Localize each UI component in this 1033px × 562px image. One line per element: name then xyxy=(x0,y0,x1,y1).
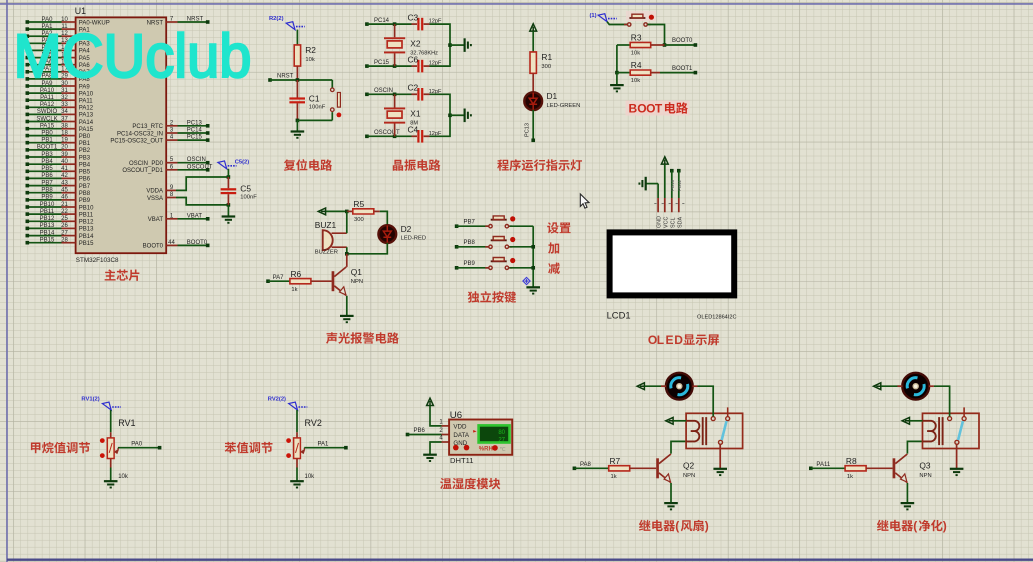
node PA11 terminal xyxy=(809,467,813,471)
wire net PB6 to U1 xyxy=(27,177,61,179)
node PB6 terminal xyxy=(406,433,410,437)
wire net PA9 to U1 xyxy=(27,85,61,87)
wire PA11 to R8 xyxy=(811,467,845,469)
svg-text:1k: 1k xyxy=(611,474,617,480)
node PA15 terminal xyxy=(26,127,30,131)
svg-text:R8: R8 xyxy=(846,456,857,466)
svg-text:12pF: 12pF xyxy=(429,131,442,137)
svg-text:PB13: PB13 xyxy=(40,223,55,229)
transistor Q2 NPN xyxy=(656,454,671,483)
label 晶振电路 (crystal circuit) xyxy=(393,159,441,171)
label 温湿度模块 (temperature-humidity module) xyxy=(440,478,500,490)
svg-text:SCL: SCL xyxy=(670,218,676,229)
svg-text:L: L xyxy=(657,333,664,347)
svg-text:OSCIN: OSCIN xyxy=(374,88,393,94)
wire net PA8 to U1 xyxy=(27,78,61,80)
node PB11 terminal xyxy=(26,212,30,216)
svg-text:SDA: SDA xyxy=(677,217,683,228)
wire VDDA to C5 top xyxy=(176,177,228,190)
power arrow VCC OLED xyxy=(661,157,668,164)
push button BOOT xyxy=(624,14,654,26)
svg-text:BOOT1: BOOT1 xyxy=(672,66,693,72)
wire NRST to C1 xyxy=(296,80,298,98)
relay RL1 fan xyxy=(686,407,743,448)
wire R5 to D2 xyxy=(380,211,388,225)
node NRST terminal xyxy=(268,78,272,82)
wire to ground xyxy=(616,73,618,85)
wire key PB8 to common rail xyxy=(510,246,534,248)
capacitor C3 12pF xyxy=(417,18,423,31)
wire flag to RV1 xyxy=(110,410,112,432)
ground RV1 xyxy=(104,481,118,487)
blue selection diamond xyxy=(523,277,530,284)
junction collector node xyxy=(345,252,349,256)
blue probe flag RV1(2) xyxy=(102,402,121,410)
junction C1 bottom xyxy=(296,119,300,123)
wire bottom rail to button xyxy=(297,119,332,121)
transistor Q3 NPN xyxy=(893,454,908,483)
svg-text:PB0: PB0 xyxy=(79,134,91,140)
node PA0 terminal xyxy=(158,446,162,450)
node PA1 terminal xyxy=(344,446,348,450)
svg-text:300: 300 xyxy=(541,64,551,70)
svg-text:PB15: PB15 xyxy=(40,238,55,244)
svg-text:PB13: PB13 xyxy=(79,227,94,233)
ground RV2 xyxy=(290,481,304,487)
wire to ground xyxy=(450,114,464,116)
svg-text:VDDA: VDDA xyxy=(146,189,163,195)
svg-text:PB10: PB10 xyxy=(40,202,55,208)
svg-text:32.768KHz: 32.768KHz xyxy=(410,50,438,56)
wire C2 to C2 rail xyxy=(430,94,451,136)
wire PC14 to C3 xyxy=(395,23,412,25)
node OSCOUT terminal xyxy=(206,168,210,172)
wire net PA2 to U1 xyxy=(27,35,61,37)
ground reset circuit xyxy=(291,132,305,138)
power arrow VCC alarm xyxy=(318,208,325,215)
wire net PB4 to U1 xyxy=(27,163,61,165)
wire C5 top stub xyxy=(227,177,229,188)
wire net PA5 to U1 xyxy=(27,57,61,59)
svg-text:PA15: PA15 xyxy=(40,124,55,130)
wire net PA12 to U1 xyxy=(27,106,61,108)
svg-text:X2: X2 xyxy=(410,39,421,49)
svg-text:10k: 10k xyxy=(118,474,129,480)
wire OSCIN to C2 xyxy=(395,93,412,95)
motor purifier M2 xyxy=(902,373,929,400)
wire R3-R4 left rail xyxy=(616,45,618,73)
svg-text:27: 27 xyxy=(498,437,505,443)
wire PC14 xyxy=(367,23,395,25)
svg-text:PC15-OSC32_OUT: PC15-OSC32_OUT xyxy=(110,138,163,144)
label 减 (decrease) xyxy=(548,263,560,274)
wire net VBAT from U1 xyxy=(178,218,208,220)
svg-text:NRST: NRST xyxy=(277,74,294,80)
DHT11 indicator dots xyxy=(453,445,507,453)
svg-text:26: 26 xyxy=(61,223,68,229)
wire net PA11 to U1 xyxy=(27,99,61,101)
wire key PB9 to common rail xyxy=(510,267,534,269)
wire VCC to U6 VDD xyxy=(430,406,442,426)
wire net PB15 to U1 xyxy=(27,242,61,244)
ground BOOT circuit xyxy=(610,85,624,91)
wire net PB5 to U1 xyxy=(27,170,61,172)
wire PA8 to R7 xyxy=(574,467,608,469)
node PA8 terminal xyxy=(573,467,577,471)
svg-text:43: 43 xyxy=(61,180,68,186)
wire R2 to NRST node xyxy=(296,66,298,80)
wire crystal X1 bottom xyxy=(394,124,396,137)
svg-text:PA11: PA11 xyxy=(816,462,830,468)
svg-text:PB1: PB1 xyxy=(41,138,53,144)
wire net PC15 from U1 xyxy=(178,139,208,141)
wire RV1 wiper to PA0 xyxy=(118,447,160,449)
wire net PB1 to U1 xyxy=(27,142,61,144)
resistor R2 10k xyxy=(294,45,300,66)
ground crystal X1 xyxy=(465,109,471,123)
svg-text:37: 37 xyxy=(61,116,68,122)
wire SCL pin OLED xyxy=(671,171,673,198)
node BOOT1 terminal xyxy=(694,71,698,75)
svg-text:PC15: PC15 xyxy=(187,135,203,141)
svg-text:PB3: PB3 xyxy=(79,155,91,161)
svg-text:R1: R1 xyxy=(541,52,552,62)
wire Q3 collector to relay coil xyxy=(907,441,922,453)
wire to BOOT0 terminal xyxy=(665,44,696,46)
svg-text:21: 21 xyxy=(61,202,68,208)
svg-text:BOOT0: BOOT0 xyxy=(187,240,208,246)
push button key PB7 xyxy=(485,216,515,228)
wire R6 to Q1 base xyxy=(311,280,332,282)
svg-text:(1): (1) xyxy=(590,13,597,19)
OLED pin tick marks xyxy=(654,202,684,204)
wire VSSA to C5 bottom xyxy=(176,198,228,205)
node BOOT1 terminal xyxy=(26,148,30,152)
junction rail PB9 xyxy=(531,266,535,270)
svg-text:PB7: PB7 xyxy=(41,180,53,186)
resistor R5 300 xyxy=(353,209,374,214)
svg-text:PB11: PB11 xyxy=(79,212,94,218)
svg-text:34: 34 xyxy=(61,109,68,115)
label 程序运行指示灯 (program run indicator) xyxy=(497,159,582,171)
wire to crystal X2 top xyxy=(394,24,396,37)
wire net PA3 to U1 xyxy=(27,42,61,44)
power arrow VCC DHT11 xyxy=(427,398,434,405)
ground crystal X2 xyxy=(465,38,471,52)
node PA9 terminal xyxy=(26,84,30,88)
OLED display LCD1 body xyxy=(610,232,735,295)
power arrow relay coil R7 xyxy=(666,417,673,424)
node OSCIN terminal xyxy=(365,93,369,97)
label 加 (increase) xyxy=(548,242,559,253)
svg-text:PB9: PB9 xyxy=(464,261,476,267)
svg-text:C5: C5 xyxy=(240,184,251,194)
svg-text:42: 42 xyxy=(61,173,68,179)
svg-text:℃: ℃ xyxy=(500,447,507,453)
wire R1 to D1 xyxy=(532,73,534,92)
wire net OSCIN from U1 xyxy=(178,162,208,164)
label 苯值调节 (benzene adjust) xyxy=(225,442,273,453)
node PB12 terminal xyxy=(26,220,30,224)
resistor R8 1k xyxy=(845,466,866,471)
wire junction to buzzer top pin xyxy=(346,211,348,233)
svg-text:PB14: PB14 xyxy=(79,234,94,240)
wire PB9 to key xyxy=(457,267,489,269)
label 主芯片 (main chip) xyxy=(105,269,140,281)
svg-text:(: ( xyxy=(913,519,917,533)
svg-text:PB15: PB15 xyxy=(79,241,94,247)
svg-text:R6: R6 xyxy=(291,269,302,279)
svg-text:Q2: Q2 xyxy=(683,461,695,471)
junction PC14-crystal xyxy=(393,22,397,26)
node PA11 terminal xyxy=(26,98,30,102)
svg-text:41: 41 xyxy=(61,166,68,172)
wire Q1 emitter to ground xyxy=(346,296,348,316)
svg-text:C5(2): C5(2) xyxy=(235,159,250,165)
node PB10 terminal xyxy=(26,205,30,209)
wire power to motor xyxy=(645,385,666,387)
wire net PA7 to U1 xyxy=(27,71,61,73)
svg-text:PC14: PC14 xyxy=(374,18,390,24)
node SWDIO terminal xyxy=(26,113,30,117)
svg-text:PB6: PB6 xyxy=(414,428,426,434)
wire to ground xyxy=(296,120,298,131)
wire net PB14 to U1 xyxy=(27,235,61,237)
junction rail PB8 xyxy=(531,245,535,249)
svg-text:C1: C1 xyxy=(309,94,320,104)
resistor R6 1k xyxy=(290,279,311,284)
wire flag to RV2 xyxy=(296,410,298,432)
wire R3 right xyxy=(651,44,665,46)
wire C1 to bottom rail xyxy=(296,103,298,120)
junction R3 output xyxy=(663,43,667,47)
wire RV1 bottom xyxy=(110,459,112,468)
wire flag to C5 junction xyxy=(227,169,229,177)
wire net PB3 to U1 xyxy=(27,156,61,158)
svg-text:10k: 10k xyxy=(305,57,314,63)
wire OSCIN xyxy=(367,93,395,95)
wire D2 to collector node xyxy=(347,243,388,254)
module U6 DHT11 body xyxy=(449,420,512,455)
svg-text:40: 40 xyxy=(61,159,68,165)
wire crystal X2 bottom xyxy=(394,53,396,66)
svg-text:Q3: Q3 xyxy=(919,461,931,471)
wire net PA1 to U1 xyxy=(27,28,61,30)
junction cap rail to ground xyxy=(448,43,452,47)
crystal X1 8M xyxy=(384,108,405,124)
node PA7 terminal xyxy=(266,279,270,283)
svg-text:22: 22 xyxy=(61,209,68,215)
svg-text:1k: 1k xyxy=(847,474,853,480)
node PC15 terminal xyxy=(365,64,369,68)
label OLED显示屏 (OLED display) xyxy=(648,333,719,347)
svg-text:PB1: PB1 xyxy=(79,141,91,147)
wire net SWCLK to U1 xyxy=(27,121,61,123)
junction R4 left xyxy=(615,71,619,75)
wire VCC to R1 xyxy=(532,31,534,52)
svg-text:R3: R3 xyxy=(631,33,642,43)
wire to Q1 collector xyxy=(346,254,348,267)
ground Q3 emitter xyxy=(901,503,915,509)
wire PB6 to U6 DATA xyxy=(408,434,442,436)
svg-text:RV2: RV2 xyxy=(305,418,322,428)
svg-text:STM32F103C8: STM32F103C8 xyxy=(76,257,119,264)
wire keys common rail xyxy=(532,226,534,287)
svg-text:10k: 10k xyxy=(631,51,640,57)
relay RL2 purifier xyxy=(923,407,980,448)
svg-text:PA12: PA12 xyxy=(79,106,94,112)
blue probe flag R2(2) xyxy=(286,22,305,30)
svg-text:VBAT: VBAT xyxy=(187,213,203,219)
svg-text:PA15: PA15 xyxy=(79,127,94,133)
node PB0 terminal xyxy=(26,134,30,138)
wire net PA15 to U1 xyxy=(27,128,61,130)
svg-text:NPN: NPN xyxy=(683,473,695,479)
svg-text:PC13_RTC: PC13_RTC xyxy=(132,124,163,130)
svg-text:R2: R2 xyxy=(305,45,316,55)
svg-text:100nF: 100nF xyxy=(240,195,257,201)
svg-text:X1: X1 xyxy=(410,109,421,119)
svg-text:OSCOUT: OSCOUT xyxy=(187,164,213,170)
node PB5 terminal xyxy=(26,170,30,174)
svg-text:LED-GREEN: LED-GREEN xyxy=(547,103,581,109)
svg-text:32: 32 xyxy=(61,95,68,101)
svg-text:PA12: PA12 xyxy=(40,102,55,108)
node SWCLK terminal xyxy=(26,120,30,124)
svg-text:BUZZER: BUZZER xyxy=(315,250,338,256)
svg-text:C3: C3 xyxy=(408,13,419,23)
node PB3 terminal xyxy=(26,155,30,159)
node PB7 terminal xyxy=(26,184,30,188)
svg-text:PC13: PC13 xyxy=(524,123,530,137)
svg-text:PA7: PA7 xyxy=(273,275,285,281)
svg-text:46: 46 xyxy=(61,195,68,201)
svg-text:D1: D1 xyxy=(547,91,558,101)
wire D1 to PC13 xyxy=(532,110,534,141)
svg-text:PB3: PB3 xyxy=(41,152,53,158)
wire R4 right xyxy=(651,72,660,74)
node C5 bottom junction xyxy=(227,203,231,207)
wire net NRST from U1 xyxy=(178,21,208,23)
svg-text:PB8: PB8 xyxy=(41,188,53,194)
wire net PA4 to U1 xyxy=(27,49,61,51)
node PA3 terminal xyxy=(26,42,30,46)
wire relay contact to ground xyxy=(956,444,958,469)
wire NRST horizontal xyxy=(270,79,332,81)
svg-text:LCD1: LCD1 xyxy=(607,310,631,321)
node VBAT terminal xyxy=(206,217,210,221)
capacitor C1 100nF xyxy=(289,97,305,103)
svg-text:D: D xyxy=(674,333,683,347)
svg-text:VSSA: VSSA xyxy=(147,196,163,202)
wire key PB7 to common rail xyxy=(510,225,534,227)
wire R8 to Q3 base xyxy=(866,467,893,469)
svg-text:PA8: PA8 xyxy=(580,462,592,468)
svg-text:PA1: PA1 xyxy=(318,441,330,447)
wire motor to relay switch xyxy=(698,386,714,416)
wire power to relay coil top xyxy=(910,420,923,422)
svg-text:VCC: VCC xyxy=(663,217,669,228)
svg-text:D2: D2 xyxy=(401,224,412,234)
wire Q3 emitter to ground xyxy=(906,483,908,503)
node PA10 terminal xyxy=(26,91,30,95)
wire PA7 to R6 xyxy=(268,280,290,282)
svg-text:PB2: PB2 xyxy=(79,148,91,154)
svg-text:33: 33 xyxy=(61,102,68,108)
svg-text:PA11: PA11 xyxy=(79,99,93,105)
node SDA terminal xyxy=(677,169,681,173)
svg-text:PB10: PB10 xyxy=(79,205,94,211)
capacitor C4 12pF xyxy=(417,130,423,143)
svg-text:R4: R4 xyxy=(631,60,642,70)
svg-text:OSCIN_PD0: OSCIN_PD0 xyxy=(129,161,164,167)
svg-text:SWCLK: SWCLK xyxy=(36,116,57,122)
svg-text:38: 38 xyxy=(61,124,68,130)
capacitor C2 12pF xyxy=(417,88,423,101)
svg-text:80: 80 xyxy=(498,430,505,436)
blue probe flag BOOT xyxy=(598,14,617,22)
svg-text:NPN: NPN xyxy=(919,473,931,479)
wire RV2 wiper to PA1 xyxy=(304,447,346,449)
svg-text:PB11: PB11 xyxy=(40,209,55,215)
node PC14 terminal xyxy=(206,131,210,135)
wire PB7 to key xyxy=(457,225,489,227)
svg-text:BOOT0: BOOT0 xyxy=(672,38,693,44)
wire flag to R2 xyxy=(296,30,298,45)
blue probe flag C5(2) xyxy=(218,161,237,169)
svg-text:27: 27 xyxy=(61,230,68,236)
power arrow relay coil R8 xyxy=(902,417,909,424)
wire Q2 collector to relay coil xyxy=(671,441,686,453)
ground Q2 emitter xyxy=(664,503,678,509)
wire to BOOT1 terminal xyxy=(660,72,695,74)
ground keys xyxy=(526,287,540,293)
svg-text:PC14: PC14 xyxy=(187,128,203,134)
node PA6 terminal xyxy=(26,63,30,67)
wire net PA6 to U1 xyxy=(27,64,61,66)
wire net SWDIO to U1 xyxy=(27,113,61,115)
node PA4 terminal xyxy=(26,49,30,53)
wire PC15 to 12pF cap xyxy=(395,65,412,67)
label 复位电路 (reset circuit) xyxy=(284,159,332,171)
svg-text:BOOT1: BOOT1 xyxy=(37,145,58,151)
svg-text:VBAT: VBAT xyxy=(148,217,164,223)
junction OSCIN-crystal xyxy=(393,93,397,97)
svg-text:MCUclub: MCUclub xyxy=(14,22,252,90)
node PB9 terminal xyxy=(26,198,30,202)
wire net BOOT1 to U1 xyxy=(27,149,61,151)
node PA7 terminal xyxy=(26,70,30,74)
ground OLED xyxy=(639,177,645,191)
node NRST terminal xyxy=(206,20,210,24)
wire R3 left xyxy=(617,44,630,46)
svg-text:20: 20 xyxy=(61,145,68,151)
label 声光报警电路 (sound-light alarm circuit) xyxy=(326,332,399,344)
svg-text:1k: 1k xyxy=(291,287,297,293)
svg-text:Q1: Q1 xyxy=(351,267,363,277)
svg-text:RV1(2): RV1(2) xyxy=(81,397,99,403)
wire U6 GND to ground xyxy=(430,442,442,454)
junction OSCOUT-crystal xyxy=(393,135,397,139)
label 甲烷值调节 (methane adjust) xyxy=(31,442,90,454)
wire OSCOUT to 12pF cap xyxy=(395,135,412,137)
svg-text:PB12: PB12 xyxy=(40,216,55,222)
svg-text:PB8: PB8 xyxy=(79,191,91,197)
svg-text:10k: 10k xyxy=(305,474,316,480)
node PC13 terminal xyxy=(206,124,210,128)
svg-text:12pF: 12pF xyxy=(429,61,442,67)
svg-text:NPN: NPN xyxy=(351,279,363,285)
